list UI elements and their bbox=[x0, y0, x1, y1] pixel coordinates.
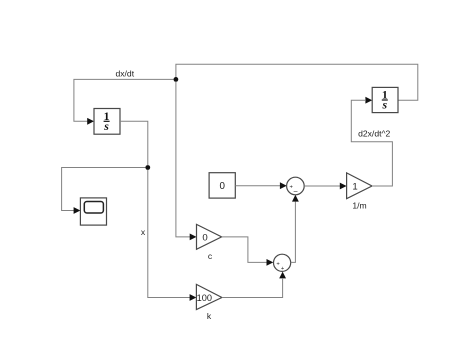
wire: gain 1/m output up to integrator2 input bbox=[351, 100, 392, 186]
gain 1/m (value 1) bbox=[347, 173, 372, 210]
svg-text:dx/dt: dx/dt bbox=[115, 68, 134, 78]
wire: constant to sum S1 bbox=[235, 185, 280, 187]
svg-text:1: 1 bbox=[352, 182, 357, 193]
scope block bbox=[80, 198, 106, 225]
wire: gain c to sum S2 bbox=[222, 237, 267, 263]
wire: gain k to sum S2 bottom bbox=[222, 279, 283, 298]
constant block (value 0) bbox=[209, 173, 235, 198]
wire: feedback loop from integrator2 output over the top to node A bbox=[176, 64, 418, 100]
wire: node A left and down into integrator1 input bbox=[74, 79, 174, 121]
svg-text:s: s bbox=[103, 119, 109, 133]
svg-text:–: – bbox=[294, 188, 298, 195]
sum junction S2 (+ +) bbox=[274, 254, 291, 272]
svg-text:0: 0 bbox=[202, 232, 207, 243]
arrowhead into sum S1 left bbox=[280, 182, 287, 189]
svg-text:x: x bbox=[141, 227, 146, 237]
node B (x junction) bbox=[145, 165, 150, 170]
arrowhead into scope bbox=[74, 207, 81, 214]
arrowhead into sum S2 left bbox=[267, 259, 274, 266]
integrator U1 (1/s) bbox=[94, 109, 120, 135]
wire: sum S2 output to sum S1 bottom bbox=[291, 202, 296, 263]
wire: node A down to gain c input bbox=[176, 82, 190, 237]
svg-text:0: 0 bbox=[219, 181, 225, 192]
arrowhead up into sum S1 bottom bbox=[292, 195, 299, 202]
svg-text:d2x/dt^2: d2x/dt^2 bbox=[358, 129, 390, 139]
integrator U2 (1/s) bbox=[372, 87, 398, 112]
wire: node B down to gain k input bbox=[148, 170, 190, 298]
gain c (value 0) bbox=[197, 224, 222, 261]
svg-text:k: k bbox=[207, 311, 212, 321]
sum junction S1 (+ -) bbox=[287, 177, 305, 195]
wire: sum S1 output to gain 1/m bbox=[304, 185, 340, 187]
arrowhead into gain 1/m bbox=[340, 183, 347, 190]
svg-text:c: c bbox=[208, 251, 213, 261]
gain k (value 100) bbox=[196, 284, 222, 321]
wire: integrator1 output right and down to node B bbox=[120, 121, 148, 165]
arrowhead up into sum S2 bottom bbox=[279, 272, 286, 279]
arrowhead into integrator1 bbox=[87, 118, 94, 125]
svg-text:s: s bbox=[382, 98, 388, 112]
arrowhead into gain c bbox=[190, 234, 197, 241]
arrowhead into integrator2 bbox=[365, 97, 372, 104]
svg-text:1/m: 1/m bbox=[352, 200, 366, 210]
arrowhead into gain k bbox=[190, 294, 197, 301]
node A (dx/dt junction) bbox=[174, 77, 179, 82]
wire: node B left and down into scope input bbox=[62, 168, 146, 211]
svg-text:100: 100 bbox=[197, 293, 212, 303]
